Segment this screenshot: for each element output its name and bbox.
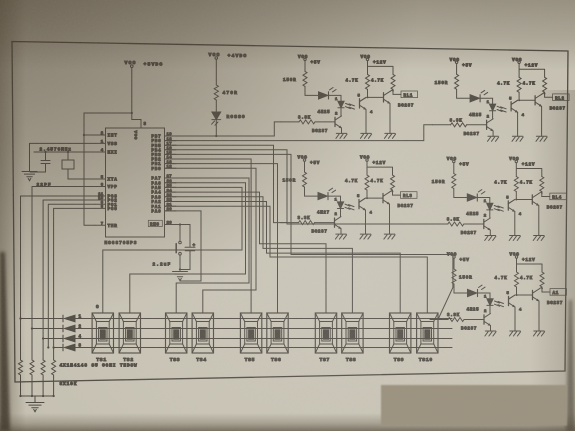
wire matrix row 2 bus — [31, 327, 452, 329]
wire opto LED cathode to driver transistor (block 1) — [340, 108, 342, 116]
resistor 3.3K input (block 5) — [447, 314, 484, 322]
power VCC +5V (block 1) — [298, 55, 321, 66]
wire 150R to diode (block 4) — [454, 189, 467, 198]
power VCC +12V (block 1) — [361, 55, 387, 66]
wire VCC +5VDC down to MCU VCC pin 3 — [131, 68, 147, 129]
ground (block 5 driver) — [485, 331, 496, 336]
wire VCC rail to left bus — [84, 112, 132, 114]
ground (block 1 opto) — [360, 133, 371, 138]
ground (block 5 opto) — [509, 331, 520, 336]
pin VSS (1) of U1 — [95, 141, 118, 147]
pin PC3 (11) of U1 — [95, 193, 118, 199]
wire input lead (block 2) — [433, 124, 451, 126]
wire PA1 net to touch switch TS10 — [165, 206, 428, 313]
resistor 4.7K collector out (block 3) — [371, 175, 395, 190]
wire matrix row 8 bus — [52, 346, 452, 348]
resistor 150R (block 1) — [283, 71, 307, 86]
pin PA2 (22) of U1 — [151, 199, 176, 205]
optocoupler 4N27 phototransistor (block 3) — [349, 190, 373, 216]
pin PC0 (8) of U1 — [95, 206, 118, 212]
pin PA5 (25) of U1 — [151, 185, 176, 191]
pin PB4 (16) of U1 — [151, 147, 176, 153]
transistor BC237 output (block 3) — [383, 192, 414, 209]
diode series (block 2) — [470, 90, 488, 102]
optocoupler 4N25 LED (block 2) — [469, 101, 502, 120]
wire output emitter to ground (block 1) — [389, 104, 391, 134]
resistor 4.7K collector opto (block 2) — [497, 77, 521, 92]
touch switch TS6 — [267, 313, 288, 353]
ground (block 5 output) — [533, 331, 544, 336]
resistor 3.3K input (block 4) — [447, 219, 484, 227]
pin PA3 (23) of U1 — [151, 194, 176, 200]
resistor 150R (block 4) — [432, 174, 456, 189]
op MCU U1 MC68705P3 body — [106, 128, 165, 237]
pin PB0 (12) of U1 — [151, 165, 176, 171]
wire PA6 net to touch switch TS2 — [130, 183, 246, 313]
wire VCC +4VDC to resistor 470R — [215, 59, 217, 85]
crystal XTAL 2.4576MHz — [40, 147, 75, 180]
wire PA5 net to touch switch TS1 — [103, 187, 242, 313]
wire +5V to 150R (block 4) — [453, 163, 455, 174]
wire +5V to 150R (block 1) — [304, 61, 306, 72]
wire opto LED cathode to driver transistor (block 3) — [340, 209, 342, 217]
wire PC1 net to row 4 — [48, 204, 95, 347]
optocoupler 4N25 LED (block 1) — [318, 98, 351, 117]
transistor BC237 driver (block 4) — [461, 218, 491, 236]
diode series (block 5) — [468, 285, 486, 297]
resistor 4.7K collector opto (block 3) — [345, 175, 369, 190]
wire +12V rail split (block 5) — [517, 258, 543, 272]
resistor 4.7K collector opto (block 5) — [495, 272, 519, 287]
wire driver emitter to ground (block 3) — [340, 229, 342, 234]
wire opto collector node to output base (block 5) — [516, 294, 533, 296]
resistor 4.7K collector out (block 5) — [520, 272, 544, 287]
wire output collector to 4.7K (block 2) — [542, 92, 553, 97]
resistor 4.7K collector opto (block 4) — [494, 177, 518, 192]
wire input lead (block 4) — [430, 223, 448, 225]
touch switch TS8 — [342, 313, 363, 353]
transistor BC237 output (block 5) — [533, 289, 564, 306]
pin PB7 (19) of U1 — [151, 133, 176, 139]
resistor 470R — [214, 85, 238, 100]
wire output collector to 4.7K (block 1) — [390, 89, 401, 94]
pin PA6 (26) of U1 — [151, 180, 176, 186]
pin INT (2) of U1 — [95, 132, 118, 138]
ground (block 4 opto) — [509, 236, 520, 241]
wire EXI pin 4 to crystal — [34, 151, 95, 153]
ground (crystal/VSS) — [22, 172, 37, 181]
ground (block 3 output) — [384, 234, 395, 239]
wire +5V to 150R (block 3) — [304, 161, 306, 172]
diode 1N4148 row 2 — [63, 325, 82, 332]
junction INT to left bus — [83, 134, 95, 136]
touch switch TS9 — [390, 313, 411, 353]
ground (block 4 driver) — [485, 236, 496, 241]
wire PA2 net to touch switch TS9 — [165, 202, 401, 314]
pin PC1 (9) of U1 — [95, 201, 118, 207]
pin XTA (5) of U1 — [95, 176, 118, 182]
touch switch TS3 — [166, 313, 187, 353]
touch switch TS5 — [240, 313, 261, 353]
resistor 150R (block 3) — [283, 172, 307, 187]
optocoupler 4N25 phototransistor (block 4) — [498, 192, 522, 218]
wire +12V rail split (block 3) — [367, 161, 393, 175]
touch switch TS2 — [119, 313, 140, 353]
pin PA4 (24) of U1 — [151, 189, 176, 195]
wire ground join bus — [21, 396, 54, 402]
power VCC +12V (block 3) — [360, 156, 386, 167]
touch switch TS4 — [192, 313, 213, 353]
resistor 4.7K collector out (block 4) — [520, 177, 544, 192]
wire PA3 net to touch switch TS8 — [165, 197, 353, 313]
LED ROSSO (red indicator) — [212, 112, 246, 125]
wire PC2 net to row column C — [43, 200, 95, 360]
node output label RL1 (block 1) — [401, 91, 418, 98]
diode 1N4148 row 8 — [63, 344, 82, 351]
wire driver emitter to ground (block 4) — [489, 230, 491, 235]
optocoupler 4N25 phototransistor (block 5) — [498, 287, 522, 313]
resistor 150R (block 2) — [435, 74, 459, 89]
wire resistor 4 to ground join — [52, 375, 54, 397]
power VCC +5VDC — [125, 60, 164, 68]
ground (block 3 driver) — [335, 234, 346, 239]
wire resistor 2 to ground join — [31, 375, 33, 397]
pin PB1 (13) of U1 — [151, 161, 176, 167]
wire PA0 net down past reset — [165, 211, 202, 281]
wire PA7 net to touch switch TS3 — [165, 178, 250, 313]
pin PB3 (15) of U1 — [151, 152, 176, 158]
power VCC +5V (block 5) — [447, 253, 470, 264]
touch switch TS10 — [417, 313, 438, 353]
wire output collector to 4.7K (block 5) — [539, 287, 550, 292]
pin RES (28) of U1 — [148, 220, 190, 227]
diode series (block 3) — [318, 188, 336, 199]
ground (block 2 driver) — [488, 136, 499, 141]
resistor 10K pulldown column 3 — [41, 360, 45, 375]
wire opto emitter to ground (block 2) — [517, 112, 519, 136]
ground (block 1 output) — [384, 133, 395, 138]
wire opto collector node to output base (block 3) — [366, 197, 383, 199]
wire opto collector node to output base (block 4) — [515, 199, 532, 201]
transistor BC237 output (block 4) — [532, 194, 563, 211]
dark right edge — [566, 300, 575, 431]
transistor BC237 driver (block 2) — [464, 119, 494, 137]
wire opto emitter to ground (block 3) — [365, 210, 367, 234]
wire PC3 net to row column A — [21, 196, 96, 360]
wire output emitter to ground (block 2) — [541, 107, 543, 137]
wire VSS pin 1 to ground — [30, 143, 96, 171]
power VCC +5V (block 4) — [447, 157, 470, 168]
diode series (block 4) — [467, 190, 485, 202]
wire driver emitter to ground (block 2) — [492, 131, 494, 136]
node output label A1 (block 5) — [550, 289, 567, 296]
resistor 3.3K input (block 3) — [298, 217, 335, 225]
wire opto LED cathode to driver transistor (block 4) — [489, 210, 491, 218]
power VCC +12V (block 5) — [510, 253, 536, 264]
wire PB7 net to opto block 1 input (via LED node) — [165, 122, 282, 136]
power VCC +5V (block 3) — [298, 156, 321, 167]
pin PB5 (17) of U1 — [151, 142, 176, 148]
diode series (block 1) — [319, 88, 337, 100]
ground (block 2 output) — [536, 136, 547, 141]
node output label RL2 (block 2) — [553, 94, 570, 101]
wire 150R to diode (block 5) — [454, 284, 467, 293]
wire output emitter to ground (block 5) — [538, 301, 540, 331]
wire VPP net to row column B — [32, 187, 95, 361]
wire PB6 net to opto block 2 input — [165, 125, 433, 141]
power VCC +12V (block 2) — [512, 58, 538, 69]
resistor 10K pulldown column 1 — [19, 360, 23, 375]
capacitor 2.2uF (reset) — [153, 225, 196, 270]
transistor BC237 driver (block 5) — [461, 313, 491, 331]
resistor 3.3K input (block 1) — [298, 116, 335, 124]
pin PA1 (21) of U1 — [151, 203, 176, 209]
wire LED cathode down to PB7 net — [215, 120, 217, 138]
touch switch TS7 — [315, 313, 336, 353]
ground (reset) — [173, 272, 188, 281]
schematic border frame (decorative) — [12, 42, 568, 383]
pin EXI (4) of U1 — [95, 149, 118, 155]
wire XTA pin 5 to crystal — [68, 178, 95, 180]
transistor BC237 driver (block 3) — [312, 216, 342, 234]
transistor BC237 output (block 2) — [535, 94, 566, 111]
resistor 4.7K collector opto (block 1) — [346, 74, 370, 89]
wire 150R to diode (block 2) — [457, 89, 470, 98]
paper grain (decorative) — [0, 0, 1, 1]
pin PC2 (10) of U1 — [95, 197, 118, 203]
wire input lead (block 5) — [430, 319, 448, 321]
wire diode to opto LED (block 4) — [477, 198, 490, 204]
node output label RL3 (block 3) — [401, 192, 418, 199]
resistor 3.3K input (block 2) — [450, 119, 487, 127]
wire output emitter to ground (block 3) — [389, 204, 391, 234]
wire TMR net to left bus — [84, 113, 95, 225]
wire +12V rail split (block 1) — [368, 61, 394, 75]
wire PB0 net to touch switch TS4 — [165, 168, 257, 313]
wire opto emitter to ground (block 4) — [514, 212, 516, 236]
ground (block 4 output) — [533, 236, 544, 241]
wire resistor 3 to ground join — [42, 375, 44, 397]
wire opto LED cathode to driver transistor (block 2) — [492, 111, 494, 119]
capacitor 22PF — [30, 151, 52, 188]
wire driver emitter to ground (block 5) — [490, 326, 492, 331]
wire +5V to 150R (block 5) — [453, 258, 455, 269]
wire PB1 net to touch switch TS6 — [165, 164, 278, 313]
wire PB5 net to opto block 3 input — [165, 145, 287, 222]
diode 1N4148 row 4 — [63, 335, 82, 342]
wire PB4 net to opto block 4 input — [165, 150, 430, 224]
optocoupler 4N25 LED (block 5) — [467, 296, 500, 315]
junction PC1 on row 4 — [47, 346, 49, 348]
power VCC +4VDC — [209, 52, 248, 59]
resistor 4.7K collector out (block 2) — [523, 77, 547, 92]
pin PA7 (27) of U1 — [151, 175, 176, 181]
wire PC0 net to row column D — [54, 208, 95, 360]
optocoupler 4N27 LED (block 3) — [317, 199, 350, 218]
ground (matrix pulldowns) — [26, 403, 44, 412]
resistor 4.7K collector out (block 1) — [371, 74, 395, 89]
wire diode to opto LED (block 2) — [480, 98, 493, 104]
dark table edge bottom-left — [0, 252, 10, 431]
wire opto emitter to ground (block 1) — [365, 109, 367, 133]
power VCC +12V (block 4) — [509, 157, 535, 168]
pushbutton reset switch — [176, 225, 181, 271]
wire diode to opto LED (block 3) — [328, 196, 341, 202]
resistor 10K pulldown column 2 — [30, 360, 34, 375]
diode 1N4148 row 1 — [63, 315, 82, 322]
wire PA4 net to touch switch TS7 — [165, 192, 327, 313]
pin TMR (7) of U1 — [95, 223, 118, 229]
pin PA0 (20) of U1 — [151, 208, 176, 214]
wire opto collector node to output base (block 1) — [367, 96, 384, 98]
wire output collector to 4.7K (block 3) — [390, 190, 401, 195]
wire PB3 net to opto block 5 input — [165, 154, 453, 319]
wire matrix row 1 bus — [19, 317, 452, 319]
pin VPP (6) of U1 — [95, 184, 118, 190]
wire matrix row 4 bus — [42, 337, 452, 339]
pin PB2 (14) of U1 — [151, 156, 176, 162]
wire 150R to diode (block 3) — [305, 187, 318, 196]
transistor BC237 output (block 1) — [384, 91, 415, 108]
wire 470R to LED — [215, 100, 217, 112]
wire diode to opto LED (block 5) — [478, 293, 491, 299]
node output label RL4 (block 4) — [550, 193, 567, 200]
power VCC +5V (block 2) — [450, 58, 473, 69]
ground (block 1 driver) — [336, 133, 347, 138]
wire output emitter to ground (block 4) — [538, 206, 540, 236]
optocoupler 4N25 phototransistor (block 1) — [349, 89, 373, 115]
wire opto emitter to ground (block 5) — [514, 307, 516, 331]
wire input lead (block 1) — [281, 121, 299, 123]
resistor 10K pulldown column 4 — [52, 360, 56, 375]
wire driver emitter to ground (block 1) — [341, 128, 343, 133]
wire opto LED cathode to driver transistor (block 5) — [489, 306, 491, 314]
wire +5V to 150R (block 2) — [456, 64, 458, 75]
wire +12V rail split (block 2) — [519, 64, 545, 78]
wire 150R to diode (block 1) — [305, 86, 318, 95]
grey redaction rectangle bottom right — [381, 385, 567, 426]
wire +12V rail split (block 4) — [516, 163, 542, 177]
optocoupler 4N25 LED (block 4) — [466, 200, 499, 219]
wire resistor 1 to ground join — [19, 375, 21, 397]
wire output collector to 4.7K (block 4) — [539, 192, 550, 197]
wire opto collector node to output base (block 2) — [518, 99, 535, 101]
resistor 150R (block 5) — [452, 269, 473, 284]
ground (block 3 opto) — [360, 234, 371, 239]
wire diode to opto LED (block 1) — [329, 95, 342, 101]
wire input lead (block 3) — [281, 222, 299, 224]
ground (block 2 opto) — [512, 136, 523, 141]
wire PB2 net to touch switch TS5 — [165, 159, 252, 313]
transistor BC237 driver (block 1) — [312, 116, 342, 134]
optocoupler 4N25 phototransistor (block 2) — [501, 92, 525, 118]
pin PB6 (18) of U1 — [151, 138, 176, 144]
touch switch TS1 — [92, 313, 113, 353]
